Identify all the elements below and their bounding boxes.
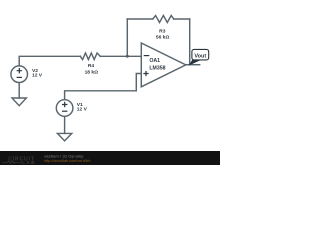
svg-text:LAB: LAB bbox=[22, 160, 36, 165]
svg-text:http://circuitlab.com/cm.b5rh: http://circuitlab.com/cm.b5rh bbox=[44, 159, 90, 163]
CircuitLab logo diamond bbox=[20, 161, 22, 163]
node flag Vout box bbox=[192, 49, 209, 60]
svg-text:18 kΩ: 18 kΩ bbox=[85, 70, 99, 76]
footer bar bbox=[0, 151, 220, 165]
wire feedback right vertical bbox=[189, 19, 191, 65]
resistor R3 bbox=[153, 16, 174, 23]
wire V1 bottom to ground bbox=[64, 116, 66, 133]
svg-text:LM358: LM358 bbox=[149, 65, 165, 71]
wire V2 top to R4 bbox=[19, 56, 80, 66]
V1 minus sign bbox=[62, 110, 67, 112]
svg-text:56 kΩ: 56 kΩ bbox=[156, 35, 170, 41]
op-amp OA1 triangle bbox=[141, 43, 186, 87]
voltage source V2 bbox=[11, 66, 28, 83]
svg-text:OA1: OA1 bbox=[149, 58, 160, 64]
svg-text:R4: R4 bbox=[88, 63, 95, 69]
voltage source V1 bbox=[56, 100, 73, 117]
svg-text:12 V: 12 V bbox=[32, 73, 43, 79]
svg-text:12 V: 12 V bbox=[77, 107, 88, 113]
wire V2 bottom to ground bbox=[18, 83, 20, 99]
ground under V2 bbox=[12, 98, 26, 106]
svg-text:Vout: Vout bbox=[194, 54, 206, 60]
V2 minus sign bbox=[17, 76, 22, 78]
op-amp minus sign bbox=[144, 55, 150, 57]
node flag Vout pointer bbox=[190, 60, 201, 65]
wire R4 to op-amp minus input bbox=[100, 55, 141, 57]
resistor R4 bbox=[80, 53, 100, 60]
wire V1 to op-amp plus input bbox=[65, 74, 142, 100]
V1 plus sign bbox=[62, 102, 67, 107]
svg-text:R3: R3 bbox=[159, 28, 166, 34]
V2 plus sign bbox=[17, 68, 22, 73]
wire feedback top right bbox=[174, 18, 190, 20]
junction node at R4 / feedback bbox=[126, 55, 129, 58]
ground under V1 bbox=[57, 133, 71, 141]
CircuitLab logo waveform bbox=[2, 161, 20, 164]
wire op-amp output to flag base bbox=[186, 64, 200, 66]
wire feedback left vertical bbox=[126, 19, 128, 56]
op-amp plus sign bbox=[143, 71, 148, 76]
wire feedback top left bbox=[127, 18, 152, 20]
svg-text:vastium / 31 Op-amp: vastium / 31 Op-amp bbox=[44, 153, 84, 158]
